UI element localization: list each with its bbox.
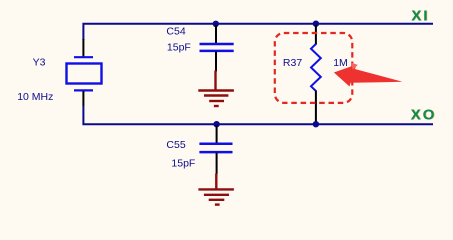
resistor R37 bottom pin (black) [315,91,317,124]
svg-text:10 MHz: 10 MHz [17,91,53,103]
svg-text:C55: C55 [166,139,185,151]
svg-text:XO: XO [411,107,437,124]
capacitor C55 plates [199,143,232,146]
wire: C55 lower stem (black) [216,153,218,175]
svg-text:15pF: 15pF [167,41,191,53]
port label XI [411,7,430,24]
node: junction dot C54/top wire [213,21,219,27]
crystal Y3 bottom pin (black) [82,91,84,106]
crystal Y3 top pin (black) [82,39,84,57]
node: junction dot R37/bottom wire [313,121,319,127]
svg-text:XI: XI [411,7,429,24]
wire: top net XI from crystal corner to right edge [83,24,433,40]
wire: C54 upper stem (black) [215,25,217,44]
svg-text:Y3: Y3 [33,56,46,68]
annotation: red arrow fold (lighter) [351,63,358,70]
annotation: red arrow head [334,65,357,87]
resistor R37 top pin (black) [315,25,317,45]
wire: bottom net XO from crystal corner to right edge [83,105,433,124]
capacitor C54 plates [200,43,234,46]
port label XO [411,107,437,124]
wire: C55 upper stem (black) [216,126,218,144]
resistor R37 zigzag [311,44,321,91]
svg-text:C54: C54 [166,26,185,38]
crystal Y3 body rectangle [67,64,102,84]
ground (bottom, below C55) [198,174,234,205]
crystal Y3 top plate [74,56,93,58]
crystal Y3 bottom plate [74,89,93,91]
node: junction dot R37/top wire [313,21,319,27]
annotation: red arrow tail [351,69,403,83]
svg-text:15pF: 15pF [171,158,195,170]
svg-text:R37: R37 [283,57,302,69]
annotation: red dashed highlight box around R37 [275,33,353,103]
node: junction dot C55/bottom wire [213,121,219,127]
wire: C54 lower stem (black) [215,52,217,72]
svg-text:1M: 1M [333,57,348,69]
ground (top, below C54) [198,71,234,107]
